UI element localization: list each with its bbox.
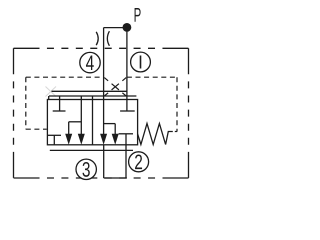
right box blocked top port T (P line) xyxy=(120,110,135,112)
bottom port rail xyxy=(50,149,133,151)
svg-text:4: 4 xyxy=(86,52,95,75)
enclosure (component boundary, chain line) xyxy=(14,48,189,178)
pilot dashed line to spool end xyxy=(26,128,47,130)
left box arm xyxy=(68,122,70,136)
left box blocked top port T xyxy=(59,96,61,111)
right box blocked bottom port T xyxy=(119,133,133,135)
right box flow jog xyxy=(104,123,116,125)
port label circle 2 xyxy=(129,151,149,174)
stub left corner xyxy=(48,96,50,100)
left box jog xyxy=(69,121,82,123)
arrowhead left-a xyxy=(65,134,72,145)
valve body envelope xyxy=(47,100,137,145)
rail A (upper port rail) xyxy=(52,90,127,92)
node P junction dot xyxy=(123,23,132,32)
left box blocked bottom port T xyxy=(48,134,61,136)
rail B (lower port rail) xyxy=(49,95,136,97)
valve position divider xyxy=(92,100,94,145)
arrowhead right-a xyxy=(100,134,107,145)
svg-text:2: 2 xyxy=(134,151,143,174)
left box flow stem xyxy=(80,96,82,136)
wire port2-port3 bottom connection xyxy=(104,177,127,179)
port 2 line xyxy=(125,134,127,178)
arrowhead left-b xyxy=(78,134,85,145)
pilot dashed box top edge xyxy=(26,76,104,78)
faint erased X xyxy=(46,87,57,97)
svg-text:3: 3 xyxy=(82,159,91,182)
spring xyxy=(138,124,173,145)
right box arm xyxy=(114,124,116,136)
spring tail dash xyxy=(175,131,177,133)
port 3 line xyxy=(103,145,105,178)
crossed pilot box X (dashed diagonals) xyxy=(104,78,126,96)
port label circle 3 xyxy=(76,159,96,182)
arrowhead right-b xyxy=(112,134,119,145)
wire P horizontal xyxy=(104,27,127,29)
orifice arcs xyxy=(96,32,98,45)
svg-text:P: P xyxy=(134,5,142,27)
pilot dashed box left edge xyxy=(25,77,27,129)
port label circle 1 xyxy=(131,52,151,72)
stub divider top xyxy=(92,96,94,100)
port label circle 4 xyxy=(80,52,100,75)
wire P vertical xyxy=(126,27,128,111)
wire pilot vertical (orifice branch) xyxy=(103,28,105,136)
pilot dashed box right edge xyxy=(176,77,178,131)
